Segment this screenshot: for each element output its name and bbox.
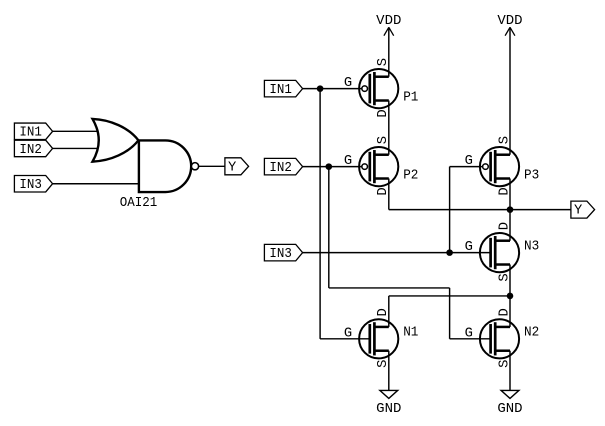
junction dot IN1 xyxy=(317,85,324,92)
wire N1 drain row xyxy=(389,295,510,297)
svg-text:G: G xyxy=(344,76,352,91)
wire IN1 vertical to N1 gate row xyxy=(319,89,321,339)
svg-text:GND: GND xyxy=(497,402,522,417)
wire Y node to N3 drain xyxy=(509,210,511,241)
svg-text:D: D xyxy=(376,187,391,195)
svg-text:S: S xyxy=(376,136,391,144)
node IN1: input tag xyxy=(264,80,302,98)
transistor P3 (PMOS) xyxy=(480,147,519,186)
input tag IN1 (gate symbol) xyxy=(14,123,52,141)
svg-text:G: G xyxy=(465,154,473,169)
node IN3: input tag xyxy=(264,244,302,262)
svg-text:D: D xyxy=(497,187,512,195)
svg-text:IN3: IN3 xyxy=(19,178,42,193)
wire junction to P2 gate xyxy=(329,166,362,168)
svg-text:D: D xyxy=(376,109,391,117)
svg-text:IN1: IN1 xyxy=(269,83,292,98)
transistor N3 (NMOS) xyxy=(480,233,519,272)
svg-text:IN2: IN2 xyxy=(269,161,292,176)
svg-text:IN3: IN3 xyxy=(269,247,292,262)
power VDD net 1 xyxy=(376,14,401,36)
wire IN3 to NAND gate xyxy=(53,183,139,185)
svg-text:G: G xyxy=(465,240,473,255)
svg-text:GND: GND xyxy=(376,402,401,417)
wire IN1 to OR gate xyxy=(53,130,100,132)
wire IN2 tag to junction xyxy=(303,166,329,168)
wire VDD1 to P1 source xyxy=(388,27,390,76)
wire VDD2 to P3 source xyxy=(509,27,511,154)
svg-text:IN1: IN1 xyxy=(19,126,42,141)
junction dot Y node xyxy=(507,206,514,213)
wire N1 gate row xyxy=(320,338,370,340)
wire internal node to N2 drain xyxy=(509,296,511,327)
wire NAND bubble to Y tag xyxy=(199,165,225,167)
svg-text:S: S xyxy=(376,58,391,66)
svg-text:P2: P2 xyxy=(403,169,418,184)
svg-text:Y: Y xyxy=(574,204,583,219)
wire N2 source to GND xyxy=(509,351,511,391)
OR gate (2-input) xyxy=(93,119,139,162)
wire P3 gate horizontal xyxy=(450,166,483,168)
power VDD net 2 xyxy=(497,14,522,36)
svg-text:D: D xyxy=(497,308,512,316)
wire Y node to output tag xyxy=(510,209,571,211)
NAND gate body xyxy=(139,140,191,192)
node IN2: input tag xyxy=(264,158,302,176)
output tag Y (gate symbol) xyxy=(225,158,249,176)
input tag IN3 (gate symbol) xyxy=(14,175,52,193)
wire junction to P1 gate xyxy=(320,88,361,90)
output tag Y (cmos) xyxy=(571,201,595,219)
wire IN2 to OR gate xyxy=(53,147,100,149)
wire P2 drain down xyxy=(388,179,390,210)
transistor N1 (NMOS) xyxy=(359,319,398,358)
svg-text:G: G xyxy=(344,154,352,169)
svg-text:VDD: VDD xyxy=(497,14,522,29)
wire P3 drain to Y node xyxy=(509,179,511,210)
wire IN2 jog horizontal xyxy=(329,287,450,289)
inverter bubble on NAND output xyxy=(191,163,198,170)
svg-text:P3: P3 xyxy=(524,169,539,184)
wire N2 gate row xyxy=(450,338,491,340)
svg-text:G: G xyxy=(344,326,352,341)
wire IN2 vertical xyxy=(328,167,330,288)
svg-text:D: D xyxy=(376,308,391,316)
wire IN2 jog down to N2 gate row xyxy=(449,288,451,339)
wire IN3 to N3 gate xyxy=(303,252,491,254)
svg-text:N2: N2 xyxy=(524,326,539,341)
ground symbol GND 2 xyxy=(497,390,522,417)
svg-text:D: D xyxy=(497,222,512,230)
svg-text:S: S xyxy=(376,360,391,368)
input tag IN2 (gate symbol) xyxy=(14,140,52,158)
svg-text:S: S xyxy=(497,273,512,281)
junction dot IN2 xyxy=(326,163,333,170)
wire N1 drain up xyxy=(388,296,390,327)
wire IN1 tag to junction xyxy=(303,88,321,90)
svg-text:N1: N1 xyxy=(403,326,418,341)
junction dot IN3/P3 gate xyxy=(446,249,453,256)
svg-text:OAI21: OAI21 xyxy=(120,196,158,211)
transistor P1 (PMOS) xyxy=(359,69,398,108)
wire output row to node Y xyxy=(389,209,510,211)
wire P1 drain to P2 source xyxy=(388,101,390,155)
svg-text:P1: P1 xyxy=(403,91,418,106)
svg-text:Y: Y xyxy=(228,160,237,175)
svg-text:G: G xyxy=(465,326,473,341)
svg-text:S: S xyxy=(497,360,512,368)
transistor P2 (PMOS) xyxy=(359,147,398,186)
wire N3 source down xyxy=(509,265,511,296)
wire P3 gate vertical to IN3 row xyxy=(449,167,451,253)
junction dot internal node xyxy=(507,293,514,300)
wire N1 source to GND xyxy=(388,351,390,391)
svg-text:IN2: IN2 xyxy=(19,143,42,158)
svg-text:VDD: VDD xyxy=(376,14,401,29)
ground symbol GND 1 xyxy=(376,390,401,417)
svg-text:N3: N3 xyxy=(524,239,539,254)
transistor N2 (NMOS) xyxy=(480,319,519,358)
svg-text:S: S xyxy=(497,136,512,144)
